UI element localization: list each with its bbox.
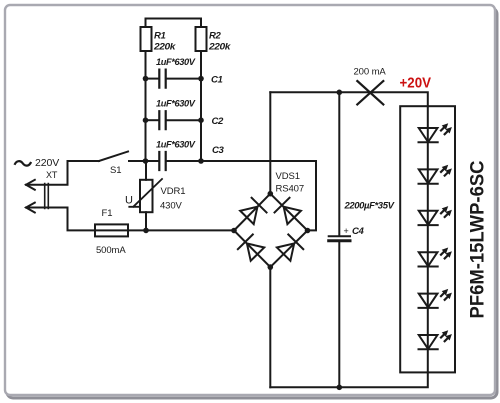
svg-text:XT: XT [46, 170, 58, 180]
svg-text:220k: 220k [208, 42, 231, 53]
svg-text:VDS1: VDS1 [276, 171, 300, 182]
LED D5 [419, 287, 455, 308]
capacitor C3 [159, 152, 165, 170]
svg-text:PF6M-15LWP-6SC: PF6M-15LWP-6SC [468, 160, 489, 318]
svg-text:VDR1: VDR1 [161, 186, 186, 197]
LED D4 [419, 245, 455, 266]
plug XT top arrowhead [26, 180, 35, 190]
bridge diode bottom-right [276, 234, 303, 261]
wire fuse line [95, 229, 233, 231]
wire LED chain [427, 106, 429, 372]
svg-text:C2: C2 [212, 116, 225, 127]
junction C1 right [198, 76, 204, 82]
junction bridge bottom [268, 264, 274, 270]
wire C2 row right [167, 119, 202, 121]
junction C3 left [143, 158, 149, 164]
svg-text:200 mA: 200 mA [354, 67, 387, 78]
svg-text:2200µF*35V: 2200µF*35V [344, 201, 395, 212]
svg-text:C3: C3 [212, 145, 225, 156]
wire top rail of RC ladder [146, 19, 202, 28]
junction bridge right [305, 228, 311, 234]
wire C1 row left [146, 78, 159, 80]
varistor VDR1 body [140, 180, 153, 212]
bridge VDS1 sides [234, 194, 308, 267]
svg-text:U: U [125, 195, 133, 207]
junction C4 top [337, 90, 343, 96]
svg-text:R1: R1 [154, 31, 166, 42]
wire bottom rail [270, 372, 428, 387]
wire bridge minus to bottom rail [269, 267, 271, 387]
wire plus rail to LED strip [270, 92, 428, 106]
svg-text:1uF*630V: 1uF*630V [156, 99, 196, 110]
LED D3 [419, 204, 455, 225]
junction bridge top [268, 191, 274, 197]
wire C4 branch top [338, 92, 340, 235]
junction C2 right [198, 117, 204, 123]
junction C3 right [198, 158, 204, 164]
capacitor C4 top plate [329, 235, 350, 237]
LED strip box [400, 106, 455, 372]
wire C4 branch bottom [338, 243, 340, 388]
svg-text:1uF*630V: 1uF*630V [156, 140, 196, 151]
svg-text:220k: 220k [153, 42, 176, 53]
wire C2 row left [146, 119, 159, 121]
label tilde AC [15, 161, 32, 165]
svg-text:R2: R2 [209, 31, 222, 42]
bridge diode top-left [239, 198, 266, 225]
wire bridge plus to top rail [269, 92, 271, 192]
svg-text:+: + [344, 226, 349, 236]
varistor VDR1 diagonal [129, 179, 162, 207]
svg-text:220V: 220V [35, 157, 59, 169]
LED D2 [419, 163, 455, 184]
capacitor C4 bottom plate [329, 239, 350, 242]
svg-text:430V: 430V [160, 201, 183, 212]
svg-text:F1: F1 [102, 208, 113, 219]
wire right rail R2 to C3 [200, 51, 202, 161]
junction bridge left [231, 228, 237, 234]
fusible link 200mA X [357, 81, 383, 104]
bridge diode top-right [275, 198, 302, 225]
wire left rail R1 to C3 [145, 51, 147, 161]
svg-text:C1: C1 [211, 75, 223, 86]
resistor R2 [196, 27, 207, 51]
svg-text:S1: S1 [110, 165, 121, 176]
wire C3 to bridge AC right [167, 161, 317, 230]
junction C2 left [143, 117, 149, 123]
varistor VDR1 wire bottom [145, 212, 147, 230]
bridge diode bottom-left [238, 234, 265, 261]
wire C1 row right [167, 78, 202, 80]
capacitor C1 [159, 70, 165, 88]
switch S1 blade [99, 152, 128, 162]
connector XT double bar [45, 184, 49, 209]
resistor R1 [141, 27, 152, 51]
svg-text:+20V: +20V [400, 75, 432, 92]
svg-text:C4: C4 [352, 226, 365, 237]
varistor VDR1 wire top [145, 161, 147, 180]
capacitor C2 [159, 111, 165, 129]
svg-text:500mA: 500mA [96, 245, 126, 256]
plug XT bottom arrowhead [26, 203, 35, 213]
junction C1 left [143, 76, 149, 82]
LED D6 [419, 328, 455, 349]
fuse F1 [95, 224, 128, 236]
LED D1 [419, 121, 455, 142]
plug XT top prong [26, 161, 99, 185]
svg-text:RS407: RS407 [276, 184, 305, 195]
wire switch to C3 [129, 160, 159, 162]
plug XT bottom prong [26, 208, 95, 231]
svg-text:1uF*630V: 1uF*630V [156, 57, 196, 68]
junction C4 bottom [337, 385, 343, 391]
junction VDR1 bottom [143, 228, 149, 234]
